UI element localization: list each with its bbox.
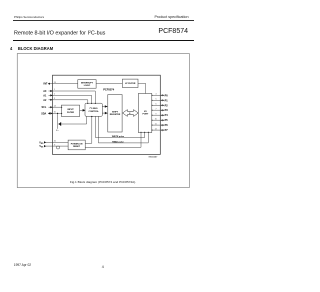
wire INT pin to interrupt logic xyxy=(49,83,78,85)
node I/O port P1 dot xyxy=(151,100,152,101)
wire P7 xyxy=(152,129,165,131)
svg-text:INT: INT xyxy=(44,82,48,85)
node I/O port P6 dot xyxy=(151,125,152,126)
wire P5 xyxy=(152,119,165,121)
wire P4 xyxy=(152,114,165,116)
svg-text:FILTER: FILTER xyxy=(67,112,75,114)
node A1 corner dot xyxy=(91,103,92,104)
svg-text:3: 3 xyxy=(54,98,55,100)
svg-text:LP FILTER: LP FILTER xyxy=(125,83,136,85)
svg-text:15: 15 xyxy=(54,112,56,114)
svg-text:P7: P7 xyxy=(165,129,169,132)
texts xyxy=(56,82,158,158)
pin numbers right xyxy=(155,94,157,131)
svg-text:14: 14 xyxy=(54,105,56,107)
svg-text:P6: P6 xyxy=(165,124,169,127)
svg-text:PORT: PORT xyxy=(143,114,150,116)
connection dots xyxy=(57,95,153,133)
pin numbers left xyxy=(54,82,56,146)
svg-text:11: 11 xyxy=(155,123,157,125)
node I/O port P4 dot xyxy=(151,115,152,116)
shift register block xyxy=(108,95,122,132)
VSS oval symbol xyxy=(56,146,59,149)
svg-text:RESET: RESET xyxy=(73,146,81,148)
svg-text:VSS: VSS xyxy=(39,145,44,148)
wire A2 xyxy=(49,100,88,103)
svg-text:CONTROL: CONTROL xyxy=(88,111,99,113)
svg-text:1: 1 xyxy=(54,89,55,91)
block diagram figure xyxy=(0,0,207,292)
figure border xyxy=(17,54,189,188)
pin A1 arrow xyxy=(50,94,52,96)
arrows bidirectional on P lines xyxy=(161,94,164,131)
wire write pulse xyxy=(95,116,144,137)
svg-text:P0: P0 xyxy=(165,94,169,97)
arrow input filter to control xyxy=(83,109,86,112)
transistor SDA output driver xyxy=(58,123,60,126)
thick rule xyxy=(13,40,194,42)
svg-text:7: 7 xyxy=(156,109,157,111)
node SDA junction xyxy=(57,113,58,114)
node write pulse entry dot xyxy=(144,132,145,133)
wire interrupt logic to LP filter xyxy=(96,83,122,85)
svg-text:8: 8 xyxy=(129,113,130,115)
wire P1 xyxy=(152,99,165,101)
svg-text:10: 10 xyxy=(155,119,157,121)
interrupt logic block xyxy=(78,80,96,89)
svg-text:LOGIC: LOGIC xyxy=(84,85,91,87)
svg-text:A2: A2 xyxy=(43,99,47,102)
pin labels left xyxy=(39,82,48,148)
svg-text:SDA: SDA xyxy=(41,112,46,115)
svg-text:2: 2 xyxy=(54,94,55,96)
svg-text:6: 6 xyxy=(156,104,157,106)
wire input filter to control xyxy=(80,109,85,111)
header rule xyxy=(13,19,194,22)
header left: Philips Semiconductors xyxy=(14,15,44,19)
footer date xyxy=(14,263,31,267)
power-on reset block xyxy=(68,140,85,150)
node read pulse entry dot xyxy=(148,132,149,133)
wire VDD xyxy=(46,141,68,143)
node I/O port P2 dot xyxy=(151,105,152,106)
node I/O port P7 dot xyxy=(151,130,152,131)
pin VDD arrow xyxy=(44,141,46,143)
pin A0 arrow xyxy=(50,90,52,92)
wire LP filter to I/O port top xyxy=(138,84,146,94)
svg-text:PCF8574: PCF8574 xyxy=(103,88,115,92)
svg-text:16: 16 xyxy=(54,141,56,143)
svg-text:13: 13 xyxy=(54,82,56,84)
pin INT arrow out xyxy=(48,83,50,85)
chip box PCF8574 xyxy=(53,75,161,154)
pin VSS arrow xyxy=(44,145,46,147)
right side port wires P0-P7 xyxy=(152,95,165,130)
svg-text:REGISTER: REGISTER xyxy=(110,114,121,116)
wire control to shift register upper xyxy=(102,106,107,108)
node A2 corner dot xyxy=(87,103,88,104)
wire P3 xyxy=(152,109,165,111)
svg-text:9: 9 xyxy=(156,114,157,116)
wire power-on reset output xyxy=(85,133,141,148)
node I/O port P5 dot xyxy=(151,120,152,121)
wires xyxy=(46,84,149,148)
header right: Product specification xyxy=(154,15,188,19)
svg-text:A1: A1 xyxy=(43,94,47,97)
LP filter block xyxy=(122,79,138,87)
node input filter SDA input xyxy=(61,113,62,114)
svg-text:P4: P4 xyxy=(165,114,169,117)
port labels right xyxy=(165,94,169,132)
footer page number xyxy=(102,265,104,269)
I/O port block xyxy=(138,94,152,133)
svg-text:I²C-BUS: I²C-BUS xyxy=(90,107,98,110)
arrowheads xyxy=(58,94,164,131)
wire SDA xyxy=(49,112,62,114)
svg-text:MGA547: MGA547 xyxy=(149,156,159,159)
I2C-bus control block U1 xyxy=(85,103,102,116)
node A0 corner dot xyxy=(95,103,96,104)
wire P0 xyxy=(152,94,165,96)
svg-text:SCL: SCL xyxy=(42,106,47,109)
svg-text:8: 8 xyxy=(54,144,55,146)
svg-text:Fig.1 Block diagram (PCF8574: Fig.1 Block diagram (PCF8574 and PCF8574… xyxy=(70,180,136,184)
svg-text:A0: A0 xyxy=(43,90,47,93)
node input filter SCL input xyxy=(61,107,62,108)
svg-text:VSS: VSS xyxy=(56,130,59,132)
pin A2 arrow xyxy=(50,99,52,101)
node I/O port P0 dot xyxy=(151,95,152,96)
svg-text:5: 5 xyxy=(156,99,157,101)
wire P2 xyxy=(152,104,165,106)
node I/O port P3 dot xyxy=(151,110,152,111)
wire SDA feedback / output driver xyxy=(57,113,59,128)
wire VSS xyxy=(46,145,68,147)
wire SCL xyxy=(49,106,62,108)
wire A1 xyxy=(49,95,92,103)
pin SCL arrow xyxy=(50,106,52,108)
svg-text:P1: P1 xyxy=(165,99,169,102)
part number PCF8574 xyxy=(158,28,188,35)
arrow control to shift upper xyxy=(105,105,108,108)
svg-text:4: 4 xyxy=(156,94,157,96)
wire control to POR junction xyxy=(85,116,92,143)
wire read pulse xyxy=(98,116,148,143)
svg-text:12: 12 xyxy=(155,128,157,130)
svg-text:P5: P5 xyxy=(165,119,169,122)
input filter block xyxy=(61,105,79,116)
fat bus arrow between shift register and I/O port xyxy=(123,110,139,117)
node POR entry dot xyxy=(141,132,142,133)
pin squares on chip edges xyxy=(44,83,53,148)
wire control to shift register lower xyxy=(102,112,107,114)
svg-text:P2: P2 xyxy=(165,104,169,107)
svg-text:P3: P3 xyxy=(165,109,169,112)
node control bottom junction xyxy=(91,116,92,117)
wire P6 xyxy=(152,124,165,126)
title: Remote 8-bit I/O expander for I2C-bus xyxy=(14,30,105,37)
pin SDA arrows xyxy=(48,112,50,114)
wire A0 xyxy=(49,91,96,103)
arrow control to shift lower xyxy=(105,112,108,115)
section heading 4 BLOCK DIAGRAM xyxy=(10,46,53,51)
svg-text:READ pulse: READ pulse xyxy=(112,141,124,144)
svg-text:WRITE pulse: WRITE pulse xyxy=(112,136,125,138)
